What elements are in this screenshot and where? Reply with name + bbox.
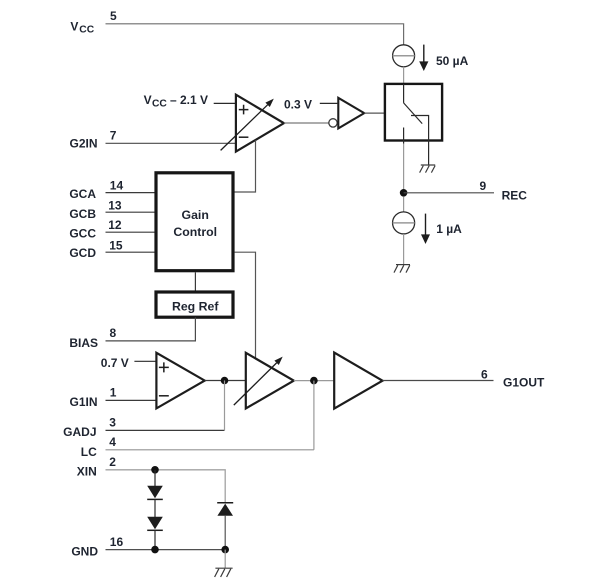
wire REC node to 1uA source bbox=[403, 196, 405, 212]
label VCC bbox=[70, 19, 94, 35]
arrow 50uA current direction bbox=[419, 45, 428, 71]
wire GND bbox=[106, 549, 226, 551]
svg-text:V: V bbox=[70, 19, 78, 33]
comparator U1 bbox=[236, 95, 284, 152]
wire LC bbox=[106, 449, 314, 451]
svg-text:GCA: GCA bbox=[69, 187, 96, 201]
svg-text:15: 15 bbox=[109, 239, 123, 253]
buffer U2 bbox=[338, 98, 364, 129]
wire VCC net from pin 5 to 50uA source bbox=[106, 24, 404, 45]
wire comparator U1 output to bubble bbox=[284, 122, 329, 124]
svg-text:3: 3 bbox=[109, 415, 116, 429]
wire GADJ riser to node A bbox=[224, 381, 226, 431]
block Gain Control bbox=[156, 173, 233, 271]
svg-text:13: 13 bbox=[108, 198, 122, 212]
arrow 1uA current direction bbox=[421, 214, 430, 244]
wire G2IN to comparator - input bbox=[106, 142, 236, 144]
wire switch pole bottom bbox=[403, 128, 405, 144]
svg-text:5: 5 bbox=[110, 9, 117, 23]
ground symbol bottom bbox=[215, 568, 233, 577]
svg-text:GCC: GCC bbox=[69, 226, 96, 240]
switch contact to ground bbox=[411, 116, 429, 166]
svg-text:50 µA: 50 µA bbox=[436, 54, 469, 68]
switch box S1 bbox=[385, 84, 442, 141]
node REC junction bbox=[400, 189, 408, 197]
wire G1IN to op-amp - input bbox=[106, 399, 156, 401]
svg-text:14: 14 bbox=[110, 178, 124, 192]
svg-text:Control: Control bbox=[173, 225, 217, 239]
svg-text:XIN: XIN bbox=[77, 465, 97, 479]
svg-text:CC: CC bbox=[79, 25, 94, 36]
diode D1 bbox=[147, 486, 163, 500]
ground symbol under 1uA source bbox=[394, 265, 410, 273]
svg-text:4: 4 bbox=[109, 435, 116, 449]
svg-text:GADJ: GADJ bbox=[63, 425, 96, 439]
node GND junction right bbox=[221, 546, 229, 554]
svg-text:7: 7 bbox=[110, 129, 117, 143]
svg-text:GCB: GCB bbox=[69, 207, 96, 221]
svg-text:Gain: Gain bbox=[182, 208, 209, 222]
current source I2 1uA bbox=[393, 212, 415, 234]
wire op-amp output to VGA bbox=[205, 380, 245, 382]
inverting bubble on U2 input bbox=[329, 119, 337, 127]
wire 0.7V stub to op-amp + input bbox=[134, 360, 155, 362]
variable gain amp U4 bbox=[246, 353, 294, 409]
node A junction op-amp output bbox=[221, 377, 229, 385]
wire comparator U1 lower edge to Gain Control bbox=[235, 140, 256, 192]
svg-text:LC: LC bbox=[81, 445, 97, 459]
wire LC riser to node B bbox=[313, 381, 315, 450]
wire GCD bbox=[106, 251, 155, 253]
wire D1 to D2 bbox=[154, 499, 156, 517]
wire switch pole top bbox=[403, 84, 405, 103]
wire Gain Control to VGA bbox=[235, 252, 256, 358]
wire XIN bbox=[106, 470, 226, 503]
svg-text:6: 6 bbox=[481, 368, 488, 382]
svg-text:1 µA: 1 µA bbox=[436, 222, 462, 236]
svg-text:G2IN: G2IN bbox=[69, 137, 97, 151]
switch lever bbox=[404, 103, 423, 124]
svg-text:8: 8 bbox=[110, 326, 117, 340]
wire I1 to switch box bbox=[403, 67, 405, 84]
op-amp U3 bbox=[156, 353, 204, 409]
diode D3 bbox=[217, 503, 233, 516]
variable arrow through U4 bbox=[234, 357, 283, 406]
wire GCC bbox=[106, 231, 155, 233]
block Reg Ref bbox=[156, 292, 233, 317]
wire REC bbox=[404, 192, 494, 194]
node GND junction left bbox=[151, 546, 159, 554]
svg-text:CC: CC bbox=[152, 98, 167, 109]
svg-text:9: 9 bbox=[480, 179, 487, 193]
svg-text:REC: REC bbox=[502, 189, 528, 203]
svg-text:2: 2 bbox=[109, 455, 116, 469]
wire U2 output to switch box bbox=[364, 112, 384, 114]
svg-text:GND: GND bbox=[71, 545, 98, 559]
node XIN junction bbox=[151, 466, 159, 474]
output buffer U5 bbox=[334, 353, 382, 409]
current source I1 50uA bbox=[393, 45, 415, 67]
svg-text:0.7 V: 0.7 V bbox=[101, 356, 129, 370]
wire U4 output to buffer U5 bbox=[294, 380, 335, 382]
wire VCC-2.1V stub to comparator + input bbox=[214, 102, 235, 104]
node B junction after U4 bbox=[310, 377, 318, 385]
wire G1OUT bbox=[383, 380, 494, 382]
svg-text:G1IN: G1IN bbox=[69, 395, 97, 409]
svg-text:Reg Ref: Reg Ref bbox=[172, 299, 219, 313]
wire D2 to GND bbox=[154, 530, 156, 549]
variable arrow through comparator U1 bbox=[221, 99, 274, 151]
svg-text:GCD: GCD bbox=[69, 246, 96, 260]
wire 1uA to ground bbox=[403, 234, 405, 265]
svg-text:0.3 V: 0.3 V bbox=[284, 98, 312, 112]
wire switch box to REC node bbox=[403, 144, 405, 193]
svg-text:16: 16 bbox=[110, 535, 124, 549]
wire XIN to diode D1 bbox=[154, 470, 156, 486]
wire 0.3V stub to buffer U2 bbox=[320, 102, 338, 104]
svg-text:BIAS: BIAS bbox=[69, 336, 98, 350]
ground symbol under switch contact bbox=[420, 165, 436, 173]
svg-text:– 2.1 V: – 2.1 V bbox=[170, 93, 208, 107]
wire BIAS to Reg Ref bbox=[106, 317, 196, 341]
svg-text:12: 12 bbox=[108, 218, 122, 232]
wire GADJ bbox=[106, 429, 225, 431]
wire GCA bbox=[106, 192, 155, 194]
svg-text:1: 1 bbox=[110, 386, 117, 400]
label VCC - 2.1 V bbox=[144, 93, 208, 110]
wire D3 to GND bbox=[224, 516, 226, 550]
wire GCB bbox=[106, 211, 155, 213]
wire GND to ground symbol bbox=[224, 550, 226, 569]
svg-text:G1OUT: G1OUT bbox=[503, 376, 545, 390]
wire Gain Control to Reg Ref bbox=[194, 272, 196, 290]
svg-text:V: V bbox=[144, 93, 152, 107]
diode D2 bbox=[147, 517, 163, 531]
